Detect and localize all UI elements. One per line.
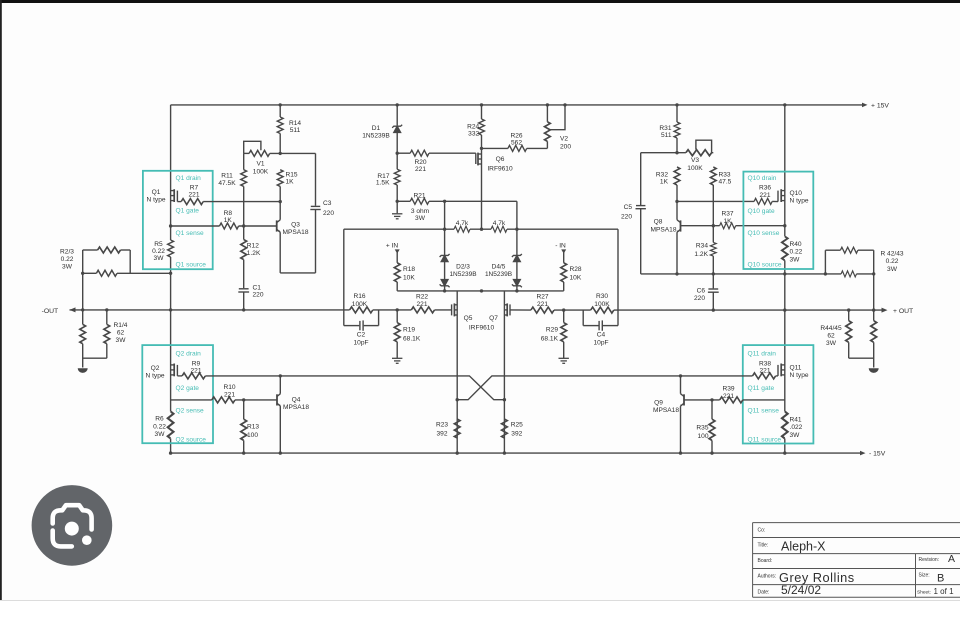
svg-text:R7: R7 (190, 184, 199, 191)
svg-text:R14: R14 (289, 120, 301, 127)
svg-text:562: 562 (511, 140, 522, 147)
wire Q1 sense row (171, 225, 220, 227)
R44/45 value label (820, 325, 842, 347)
title block title value (781, 540, 826, 554)
resistor R30 (591, 307, 614, 313)
R6 value label (153, 416, 166, 438)
wire R20 lead (397, 152, 410, 154)
R26 value label (510, 132, 522, 146)
V1 value label (253, 161, 269, 176)
camera icon circle (32, 485, 113, 566)
svg-text:221: 221 (415, 166, 426, 173)
wire R2/3 right vertical (129, 250, 131, 273)
R35 value label (696, 424, 708, 440)
Q6 name label (487, 156, 513, 172)
svg-text:R27: R27 (536, 294, 548, 301)
wire D45 column upper (516, 201, 518, 255)
resistor R6 element (168, 412, 174, 439)
svg-text:221: 221 (759, 192, 770, 199)
resistor R36 (754, 198, 772, 204)
resistor R14 (277, 117, 283, 133)
node R2/3 lower left (81, 272, 84, 275)
wire D1 top lead (396, 105, 398, 126)
resistor R7 (181, 199, 203, 205)
potentiometer V2 (545, 122, 551, 142)
svg-text:10pF: 10pF (353, 340, 368, 347)
svg-text:221: 221 (723, 393, 734, 400)
D1 name label (362, 125, 390, 140)
diode D4/5 lower zener (512, 280, 522, 288)
resistor R16 (350, 307, 373, 313)
wire R26 to V2 (527, 147, 548, 149)
svg-text:Q10 source: Q10 source (748, 262, 782, 269)
wire C4 loop bottom left (583, 325, 598, 327)
svg-text:1N5239B: 1N5239B (485, 271, 512, 278)
resistor R37 (720, 223, 736, 229)
R39 value label (722, 386, 734, 400)
svg-text:MPSA18: MPSA18 (282, 229, 308, 236)
svg-text:R21: R21 (413, 192, 425, 199)
svg-text:511: 511 (290, 127, 301, 134)
node rail Q2 (169, 451, 172, 454)
node Q1 source column (169, 272, 172, 275)
wire R33 to sense row (712, 185, 714, 242)
wire C5 bottom lead (640, 209, 642, 274)
resistor R24 (479, 119, 485, 135)
resistor R12 (241, 240, 247, 260)
svg-text:10pF: 10pF (593, 340, 608, 347)
R36 value label (759, 185, 771, 199)
node gate row R15 column (279, 200, 282, 203)
svg-text:100K: 100K (352, 301, 368, 308)
resistor R45 right (871, 321, 877, 343)
svg-text:R41: R41 (790, 417, 802, 424)
wire C2 loop bottom right (364, 325, 379, 327)
wire Q4 emitter column (279, 406, 281, 453)
Q11 pin label source (748, 436, 782, 443)
svg-text:Q9: Q9 (654, 399, 663, 406)
wire C3 top lead (315, 153, 317, 205)
svg-text:IRF9610: IRF9610 (487, 165, 513, 172)
wire V1 row right (270, 152, 316, 154)
R21 value label (413, 192, 425, 199)
wire +OUT row a (554, 309, 591, 311)
title block sheet value (934, 587, 955, 596)
svg-text:R36: R36 (759, 185, 771, 192)
-OUT label (42, 308, 59, 315)
wire V3 row (641, 152, 686, 154)
svg-text:.022: .022 (790, 424, 803, 431)
resistor R38 (753, 373, 776, 379)
node bias row D23 (443, 289, 446, 292)
node rail R35 (710, 451, 713, 454)
wire R14 top lead (279, 105, 281, 117)
node +OUT main column (783, 308, 786, 311)
node V3 row R32 (675, 151, 678, 154)
transistor Q7 mosfet symbol (504, 303, 510, 316)
node top rail V2 wiper (563, 103, 566, 106)
svg-text:3W: 3W (826, 340, 837, 347)
R1/4 value label (114, 322, 128, 344)
Q7 name label (489, 315, 498, 322)
resistor R9 (182, 373, 205, 379)
svg-text:1 of 1: 1 of 1 (934, 587, 955, 596)
node rail R25 (503, 451, 506, 454)
svg-text:+ IN: + IN (386, 242, 399, 249)
wire R2/3 upper lead a (83, 249, 98, 251)
resistor R29 (561, 323, 567, 342)
transistor Q8 (677, 220, 681, 233)
node 4.7k D23 (443, 228, 446, 231)
wire R24 to Q6 (481, 135, 483, 229)
R8 value label (224, 210, 233, 224)
svg-text:R10: R10 (223, 384, 235, 391)
wire R45 top lead (873, 310, 875, 321)
svg-text:MPSA18: MPSA18 (283, 404, 309, 411)
svg-text:0.22: 0.22 (61, 256, 74, 263)
R33 value label (719, 171, 732, 185)
node Q8 emitter row (675, 272, 678, 275)
wire R42/43 branch vertical (824, 250, 826, 274)
R22 value label (416, 294, 428, 308)
wire V1 wiper loop (244, 141, 261, 153)
svg-text:R13: R13 (247, 423, 259, 430)
wire Q7 gate to R27 (510, 309, 531, 311)
wire crossover left top (280, 376, 504, 400)
wire Q4 collector column (279, 376, 281, 394)
wire C5 top lead (640, 153, 642, 205)
svg-text:R29: R29 (546, 326, 558, 333)
node Q11 gate row Q9 (679, 374, 682, 377)
svg-text:62: 62 (827, 333, 835, 340)
wire right gate row (677, 200, 754, 202)
svg-text:Authors:: Authors: (758, 574, 777, 580)
svg-text:N type: N type (145, 373, 164, 380)
Q3 name label (282, 221, 308, 236)
svg-text:Sheet:: Sheet: (917, 590, 931, 596)
svg-text:Q1 sense: Q1 sense (176, 230, 205, 237)
wire R13 top lead (243, 400, 245, 419)
svg-text:Q7: Q7 (489, 315, 498, 322)
svg-text:332: 332 (468, 130, 479, 137)
wire R44 top lead (848, 310, 850, 321)
resistor R2 upper (98, 247, 121, 253)
wire R29 bottom lead (563, 342, 565, 358)
svg-text:B: B (937, 573, 944, 585)
capacitor C4 (599, 320, 602, 330)
diode D4/5 upper zener (512, 254, 522, 262)
wire R1/4 right top lead (106, 310, 108, 325)
svg-text:0.22: 0.22 (790, 249, 803, 256)
Q1 package box (143, 171, 213, 269)
node rail Q9 (679, 451, 682, 454)
transistor Q11 mosfet symbol (776, 364, 785, 377)
node sense row R11 (242, 224, 245, 227)
resistor R26 (508, 145, 527, 151)
wire R42 upper lead b (858, 249, 874, 251)
svg-text:392: 392 (436, 431, 447, 438)
R17 value label (376, 173, 390, 187)
title block field label Board (758, 558, 773, 564)
svg-text:221: 221 (537, 301, 548, 308)
R16 value label (352, 293, 368, 308)
wire R42 upper lead a (825, 249, 840, 251)
wire R2/3 lower lead a (83, 272, 97, 274)
node R20 takeoff (396, 152, 399, 155)
node R42/43 right (872, 272, 875, 275)
ground under R19 (392, 358, 402, 363)
capacitor C6 (708, 289, 719, 292)
svg-text:IRF9610: IRF9610 (469, 324, 495, 331)
svg-text:221: 221 (190, 368, 201, 375)
node +OUT R44/45a (847, 308, 850, 311)
wire R22 to Q5 gate (435, 309, 452, 311)
svg-text:R40: R40 (790, 241, 802, 248)
node R21 takeoff (396, 200, 399, 203)
svg-text:R37: R37 (721, 211, 733, 218)
wire 4.7k row mid (470, 228, 491, 230)
svg-text:3W: 3W (62, 263, 73, 270)
transistor Q2 mosfet symbol (171, 364, 183, 377)
svg-text:Q11: Q11 (790, 364, 802, 371)
svg-text:200: 200 (560, 144, 571, 151)
R28 value label (570, 266, 582, 282)
node sense row R35 (710, 398, 713, 401)
svg-text:3W: 3W (887, 266, 898, 273)
capacitor C5 (636, 206, 646, 209)
title block revision value (948, 553, 955, 565)
node Q2 gate row Q4 (279, 374, 282, 377)
node right source row main (783, 272, 786, 275)
svg-text:R15: R15 (286, 171, 298, 178)
svg-text:62: 62 (117, 330, 125, 337)
wire R11 to sense row (243, 186, 245, 226)
svg-text:1N5239B: 1N5239B (362, 133, 390, 140)
wire R12 to C1 (243, 260, 245, 289)
svg-text:3W: 3W (415, 215, 426, 222)
Q1 pin label drain (176, 175, 202, 182)
R27 value label (536, 294, 548, 308)
+15V arrow (862, 103, 868, 108)
Q2 pin label drain (176, 350, 202, 357)
wire V2 wiper loop (549, 105, 565, 130)
svg-text:Q4: Q4 (292, 397, 301, 404)
svg-text:47.5: 47.5 (719, 179, 732, 186)
C2 value label (353, 331, 368, 346)
svg-text:R26: R26 (510, 132, 522, 139)
svg-text:1K: 1K (723, 218, 732, 225)
V2 value label (560, 136, 571, 151)
resistor R41 element (782, 412, 788, 439)
svg-text:1N5239B: 1N5239B (449, 271, 476, 278)
resistor R27 (531, 307, 554, 313)
C1 value label (253, 284, 264, 298)
wire Q1 gate row (203, 201, 280, 203)
wire R1/4 left bottom lead (82, 344, 84, 368)
R20 value label (414, 159, 426, 173)
resistor R3 lower (96, 270, 117, 276)
resistor R44 left (846, 321, 852, 343)
svg-text:Q2 drain: Q2 drain (176, 350, 202, 357)
wire R45 bottom lead (873, 342, 875, 367)
-OUT arrowhead (70, 307, 76, 312)
capacitor C2 (360, 320, 363, 330)
node 4.7k center (480, 228, 483, 231)
wire R26 lead (482, 147, 508, 149)
svg-text:0.22: 0.22 (886, 258, 899, 265)
wire R35 bottom lead (711, 440, 713, 453)
node -OUT R2/3 (81, 308, 84, 311)
resistor R11 (241, 170, 247, 187)
Q1 pin label sense (176, 230, 205, 237)
R25 value label (511, 422, 523, 438)
resistor R33 (710, 167, 716, 185)
svg-text:100: 100 (697, 433, 708, 440)
svg-text:MPSA18: MPSA18 (650, 226, 676, 233)
R40 value label (790, 241, 803, 263)
R34 value label (694, 243, 708, 258)
title block author value (779, 570, 855, 585)
R18 value label (403, 266, 415, 282)
R31 value label (659, 125, 671, 139)
wire Q5 column (456, 291, 458, 453)
svg-text:V1: V1 (256, 161, 264, 168)
resistor R23 (454, 419, 460, 438)
svg-text:Q11 source: Q11 source (748, 436, 782, 443)
svg-text:R23: R23 (436, 422, 448, 429)
wire R14 to V1 row (279, 134, 281, 154)
R5 value label (152, 241, 165, 262)
svg-text:R44/45: R44/45 (820, 325, 842, 332)
title block field label Authors (758, 574, 777, 580)
wire D23 column lower (444, 286, 446, 291)
Q11 pin label gate (748, 385, 775, 392)
svg-text:R33: R33 (719, 171, 731, 178)
wire R18 top lead (396, 251, 398, 263)
svg-text:Date:: Date: (758, 590, 770, 596)
svg-text:221: 221 (224, 392, 235, 399)
svg-text:-OUT: -OUT (42, 308, 59, 315)
wire D45 column inter (516, 262, 518, 280)
wire Q9 collector column (680, 376, 682, 394)
title block field label Title (758, 543, 769, 549)
ground under R29 (559, 358, 569, 363)
node top rail R31 (675, 103, 678, 106)
resistor R20 (410, 150, 429, 156)
R42/43 value label (880, 250, 903, 273)
svg-text:221: 221 (759, 368, 770, 375)
svg-text:3 ohm: 3 ohm (411, 208, 430, 215)
4.7k right label (493, 220, 506, 227)
resistor R22 (411, 307, 434, 313)
svg-text:Title:: Title: (758, 543, 769, 549)
node sense row R34 (712, 224, 715, 227)
resistor R4 right (104, 324, 110, 343)
wire R37 to Q10 sense (736, 225, 785, 227)
R37 value label (721, 211, 733, 225)
Q10 package box (743, 172, 813, 269)
D4/5 name label (485, 263, 512, 278)
svg-text:R18: R18 (403, 266, 415, 273)
R32 value label (656, 171, 669, 185)
svg-text:Co:: Co: (758, 528, 766, 534)
svg-text:R 42/43: R 42/43 (880, 250, 903, 257)
+15V rail wire (171, 104, 862, 106)
R29 value label (541, 326, 559, 342)
page bottom boundary line (0, 600, 960, 602)
svg-text:Q6: Q6 (496, 156, 505, 163)
Q10 pin label drain (748, 175, 777, 182)
left black screenshot border line (0, 0, 2, 601)
R24 value label (467, 123, 479, 137)
title block frame (753, 523, 960, 598)
svg-text:R5: R5 (154, 241, 163, 248)
diode D1 zener (392, 125, 402, 133)
wire D23 column inter (444, 262, 446, 280)
svg-text:R34: R34 (696, 243, 708, 250)
svg-text:221: 221 (188, 191, 199, 198)
node Q10 sense (783, 224, 786, 227)
svg-text:Size:: Size: (919, 573, 930, 579)
wire R10 to Q4 base (235, 399, 277, 401)
Q2 pin label source (176, 436, 207, 443)
resistor R28 (561, 263, 567, 282)
svg-text:R28: R28 (570, 266, 582, 273)
wire C6 to out row (712, 292, 714, 310)
svg-text:220: 220 (621, 213, 632, 220)
wire left main column lower (170, 439, 172, 454)
wire R18 bottom lead (396, 282, 398, 291)
svg-text:R12: R12 (247, 243, 259, 250)
wire R39 to Q9 base (684, 399, 720, 401)
title block date value (781, 583, 821, 597)
R9 value label (190, 360, 201, 374)
Q1 pin label source (176, 262, 207, 269)
svg-text:1.2K: 1.2K (247, 250, 261, 257)
-IN label (555, 242, 566, 249)
svg-text:Q11 gate: Q11 gate (748, 385, 775, 392)
transistor Q10 mosfet symbol (772, 189, 785, 202)
node bias row center (480, 289, 483, 292)
wire D1 to R20 node (396, 132, 398, 169)
Q11 package box (743, 345, 814, 443)
svg-text:Q10 gate: Q10 gate (748, 208, 775, 215)
potentiometer V3 (686, 150, 712, 156)
transistor Q6 mosfet symbol (476, 153, 482, 166)
svg-text:R35: R35 (696, 424, 708, 431)
+OUT arrowhead (882, 308, 888, 313)
wire right main column lower (784, 439, 786, 454)
wire V2 top lead (546, 105, 548, 122)
R19 value label (403, 326, 421, 342)
resistor R8 (220, 223, 239, 229)
C5 value label (621, 204, 632, 220)
R23 value label (436, 422, 448, 438)
wire V2 bottom lead (546, 141, 548, 148)
wire R8 to Q3 base (239, 225, 277, 227)
wire crossover right top (457, 376, 680, 400)
resistor R13 (241, 419, 247, 440)
capacitor C1 (238, 289, 249, 292)
wire right source row (641, 273, 785, 275)
svg-text:0.22: 0.22 (153, 423, 166, 430)
potentiometer V1 (249, 150, 270, 156)
svg-text:Q3: Q3 (291, 221, 300, 228)
top black screenshot border bar (0, 0, 960, 3)
C4 value label (593, 331, 608, 346)
wire Q8 sense row (681, 225, 720, 227)
title block field label Size (919, 573, 930, 579)
